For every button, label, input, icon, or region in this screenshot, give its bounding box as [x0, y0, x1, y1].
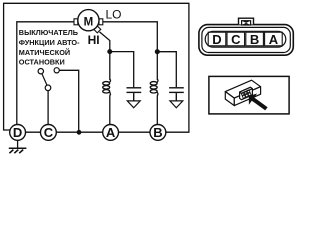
svg-text:M: M — [84, 16, 94, 28]
svg-text:ОСТАНОВКИ: ОСТАНОВКИ — [19, 58, 65, 67]
svg-text:HI: HI — [88, 33, 100, 47]
svg-text:LO: LO — [106, 8, 122, 22]
svg-text:ФУНКЦИИ АВТО-: ФУНКЦИИ АВТО- — [19, 38, 80, 47]
svg-text:D: D — [13, 125, 22, 140]
svg-text:A: A — [106, 125, 116, 140]
svg-text:D: D — [212, 32, 221, 47]
svg-text:B: B — [250, 32, 259, 47]
svg-text:МАТИЧЕСКОЙ: МАТИЧЕСКОЙ — [19, 48, 70, 57]
svg-text:A: A — [269, 32, 279, 47]
svg-text:B: B — [153, 125, 162, 140]
svg-text:ВЫКЛЮЧАТЕЛЬ: ВЫКЛЮЧАТЕЛЬ — [19, 28, 78, 37]
svg-text:C: C — [44, 125, 54, 140]
svg-text:C: C — [231, 32, 241, 47]
